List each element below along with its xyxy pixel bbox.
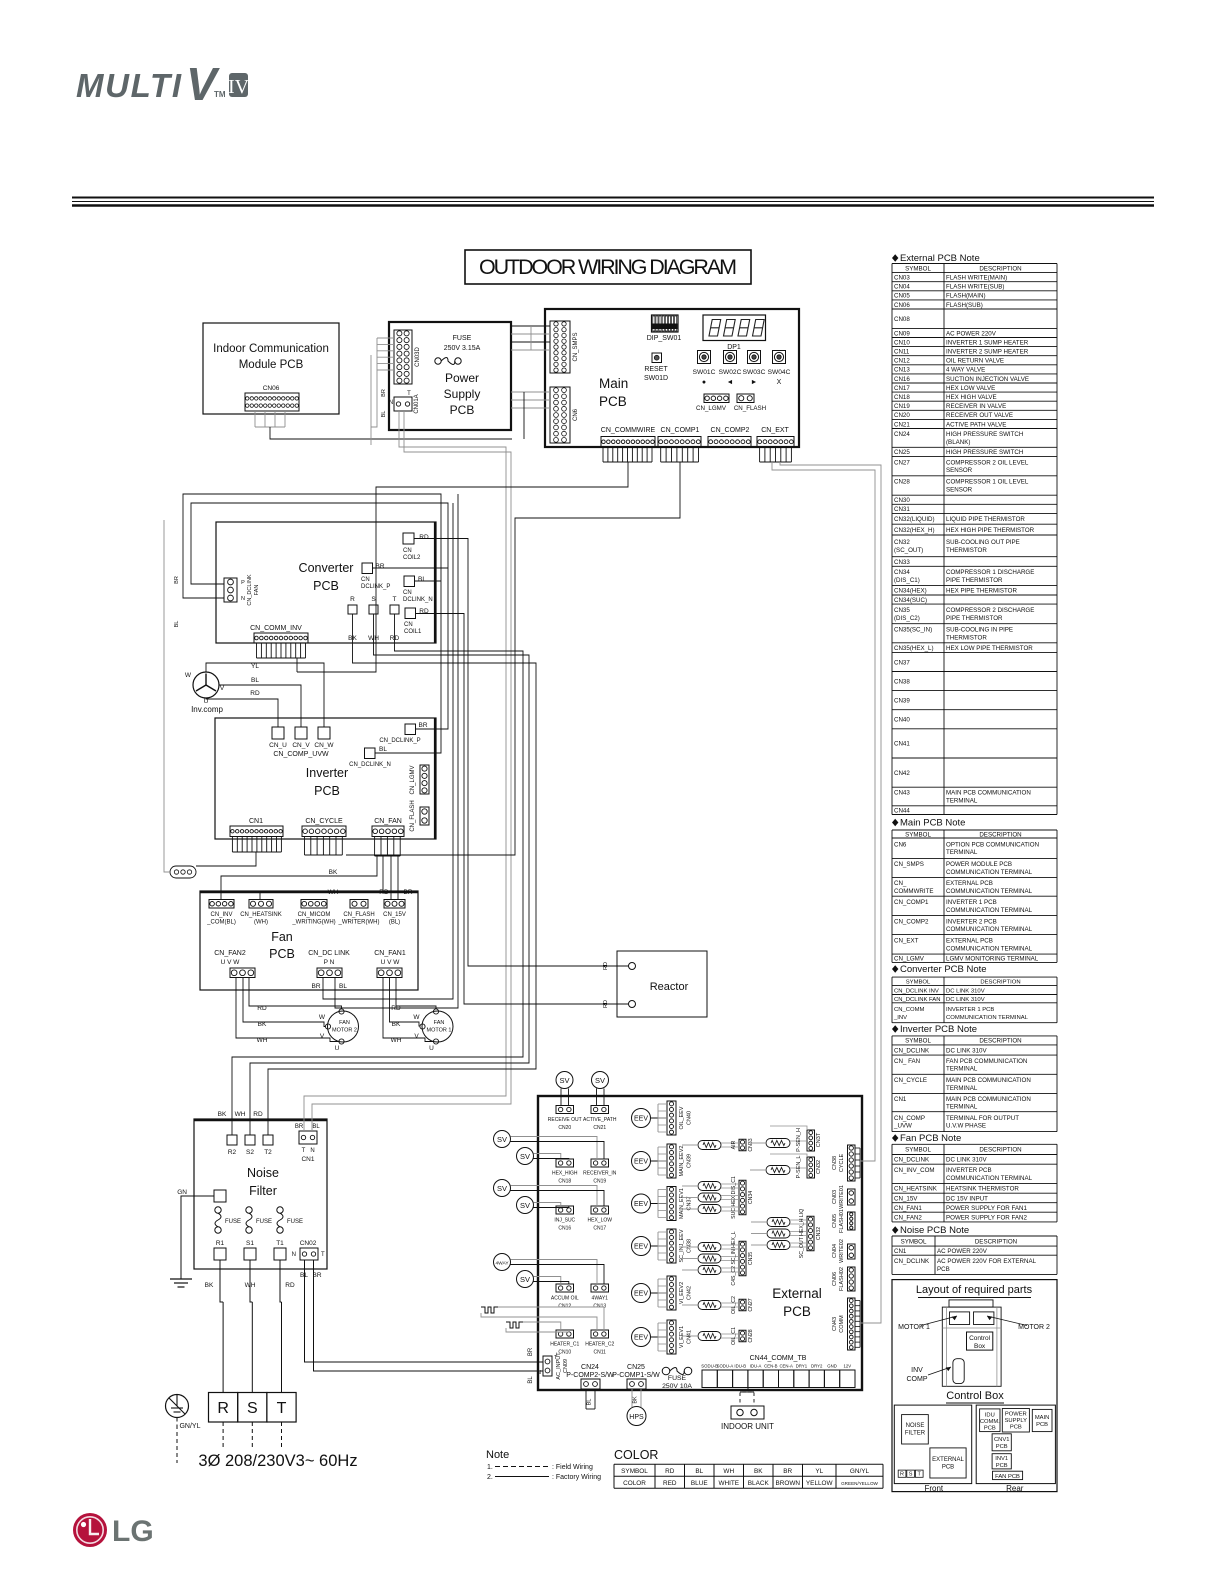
svg-text:T: T xyxy=(393,596,397,603)
svg-text:Rear: Rear xyxy=(1006,1484,1024,1493)
svg-text:CN_FAN: CN_FAN xyxy=(374,818,402,825)
svg-text:CEN-A: CEN-A xyxy=(779,1364,793,1369)
svg-text:SYMBOL: SYMBOL xyxy=(905,1147,931,1154)
svg-text:CN_CYCLE: CN_CYCLE xyxy=(894,1077,927,1084)
connector CN18 xyxy=(556,1159,574,1167)
svg-text:CN_EXT: CN_EXT xyxy=(894,938,919,945)
svg-text:FLASH WRITE(MAIN): FLASH WRITE(MAIN) xyxy=(946,274,1007,281)
svg-text:(DIS_C2): (DIS_C2) xyxy=(894,615,920,622)
svg-text:R: R xyxy=(350,596,355,603)
svg-text:CN37: CN37 xyxy=(894,659,910,666)
svg-text:FUSE: FUSE xyxy=(668,1375,687,1382)
svg-text:CN_INV_COM: CN_INV_COM xyxy=(894,1167,935,1174)
ground wire xyxy=(181,1196,214,1279)
svg-text:P: P xyxy=(241,580,245,586)
connectors CN_U CN_V CN_W xyxy=(272,727,284,739)
svg-text:X: X xyxy=(777,379,782,386)
connector CN03 WRITE01 xyxy=(848,1189,856,1205)
svg-text:SV: SV xyxy=(520,1152,530,1161)
svg-text:COMP: COMP xyxy=(907,1376,928,1383)
svg-text:V: V xyxy=(414,1033,419,1040)
svg-text:CN05: CN05 xyxy=(832,1214,838,1228)
svg-text:COIL2: COIL2 xyxy=(403,555,421,561)
connector CN38 CYCLE xyxy=(848,1145,856,1181)
svg-text:BR: BR xyxy=(375,563,384,570)
svg-text:CN24: CN24 xyxy=(894,431,910,438)
fuses xyxy=(215,1207,221,1213)
svg-text:RD: RD xyxy=(253,1111,263,1118)
svg-text:SV: SV xyxy=(520,1201,530,1210)
terminals R2 S2 T2 xyxy=(227,1135,237,1145)
svg-text:(WH): (WH) xyxy=(254,920,268,926)
svg-text:Supply: Supply xyxy=(444,387,481,401)
wire S xyxy=(251,1302,253,1393)
svg-text:COMMUNICATION TERMINAL: COMMUNICATION TERMINAL xyxy=(946,945,1033,952)
svg-text:INJ_SUC: INJ_SUC xyxy=(554,1218,575,1224)
thermistor connector CN27 xyxy=(739,1299,746,1311)
svg-text:BL: BL xyxy=(174,621,180,628)
svg-text:T: T xyxy=(302,1148,306,1154)
Rear box xyxy=(976,1405,1055,1484)
svg-text:CN_COMP: CN_COMP xyxy=(894,1115,925,1122)
svg-text:COMMUNICATION TERMINAL: COMMUNICATION TERMINAL xyxy=(946,926,1033,933)
svg-text:Noise PCB Note: Noise PCB Note xyxy=(900,1225,969,1236)
svg-text:INVERTER 1 PCB: INVERTER 1 PCB xyxy=(946,899,997,906)
svg-text:CN01A: CN01A xyxy=(414,394,420,413)
svg-text:Main PCB Note: Main PCB Note xyxy=(900,818,965,829)
svg-text:SUCTION INJECTION VALVE: SUCTION INJECTION VALVE xyxy=(946,376,1029,383)
svg-text:TERMINAL: TERMINAL xyxy=(946,1066,978,1073)
MULTI V IV logo xyxy=(76,58,250,110)
svg-text:CN03: CN03 xyxy=(832,1190,838,1204)
svg-text:SV: SV xyxy=(520,1275,530,1284)
svg-text:FAN: FAN xyxy=(254,585,260,596)
svg-text:CN24: CN24 xyxy=(581,1364,599,1371)
svg-text:CN_DC LINK: CN_DC LINK xyxy=(308,950,350,957)
svg-text:C4S_C2 SC_IN HEX_L: C4S_C2 SC_IN HEX_L xyxy=(731,1231,737,1285)
wire BK to HPS xyxy=(631,1389,633,1407)
svg-text:N: N xyxy=(310,1148,314,1154)
wire CN1 to inline connector xyxy=(196,852,256,866)
svg-text:V: V xyxy=(320,1033,325,1040)
svg-text:CN_DCLINK_P: CN_DCLINK_P xyxy=(379,738,420,744)
svg-text:CN35(HEX_L): CN35(HEX_L) xyxy=(894,645,934,652)
svg-text:PCB: PCB xyxy=(984,1426,996,1432)
svg-text:ACTIVE PATH VALVE: ACTIVE PATH VALVE xyxy=(946,421,1006,428)
connector CN_LGMV (inverter) xyxy=(420,765,429,794)
connector CN_LGMV xyxy=(704,394,729,403)
svg-text:LIQUID PIPE THERMISTOR: LIQUID PIPE THERMISTOR xyxy=(946,516,1025,523)
svg-text:SYMBOL: SYMBOL xyxy=(906,980,931,986)
svg-text:CN42: CN42 xyxy=(687,1286,693,1300)
fuse F1 xyxy=(435,358,441,364)
svg-text:MULTI: MULTI xyxy=(76,67,182,104)
wire BL to CN24 xyxy=(585,1389,587,1409)
svg-text:RD: RD xyxy=(250,690,260,697)
svg-text:BR: BR xyxy=(528,1347,534,1356)
svg-text:S: S xyxy=(909,1472,913,1478)
svg-text:IV: IV xyxy=(228,76,250,98)
button RESET SW01D xyxy=(652,353,662,363)
connector CN COIL2 xyxy=(403,533,414,544)
svg-text:SV: SV xyxy=(497,1184,507,1193)
svg-text:T: T xyxy=(407,391,411,397)
svg-text:P-SEN_H: P-SEN_H xyxy=(796,1128,802,1152)
svg-text:DC LINK 310V: DC LINK 310V xyxy=(946,1047,987,1054)
svg-text:DC LINK 310V: DC LINK 310V xyxy=(946,988,985,994)
svg-text:: Field Wiring: : Field Wiring xyxy=(552,1464,593,1471)
svg-text:Inv.comp: Inv.comp xyxy=(191,705,223,714)
svg-text:COMPRESSOR 2 DISCHARGE: COMPRESSOR 2 DISCHARGE xyxy=(946,607,1034,614)
svg-text:CN_MICOM: CN_MICOM xyxy=(298,912,331,918)
svg-text:CN_HEATSINK: CN_HEATSINK xyxy=(240,912,282,918)
svg-text:SUPPLY: SUPPLY xyxy=(1005,1418,1028,1424)
connector CN_INV_COM(BL) xyxy=(209,900,234,909)
svg-text:CN13: CN13 xyxy=(894,367,910,374)
pressure switch HPS xyxy=(627,1407,646,1426)
svg-text:CN37: CN37 xyxy=(687,1196,693,1210)
svg-text:CN06: CN06 xyxy=(263,385,280,392)
Main PCB box xyxy=(545,309,799,447)
svg-text:MAIN: MAIN xyxy=(1035,1415,1050,1421)
solenoid valve SV xyxy=(517,1271,534,1288)
svg-text:BROWN: BROWN xyxy=(776,1480,801,1487)
svg-text:RECEIVER OUT VALVE: RECEIVER OUT VALVE xyxy=(946,412,1013,419)
INDOOR UNIT connector xyxy=(731,1406,764,1419)
connector CN6 xyxy=(550,387,570,443)
wire T RD xyxy=(268,614,536,1135)
svg-text:CN11: CN11 xyxy=(894,348,910,355)
svg-text:WRITE02: WRITE02 xyxy=(839,1239,845,1263)
svg-text:CN43: CN43 xyxy=(894,790,910,797)
svg-text:FUSE: FUSE xyxy=(256,1219,272,1225)
svg-text:CN_FAN2: CN_FAN2 xyxy=(894,1214,922,1221)
svg-text:IDU-A: IDU-A xyxy=(750,1364,762,1369)
svg-text:CN09: CN09 xyxy=(563,1359,569,1373)
svg-text:CN04: CN04 xyxy=(894,284,910,291)
svg-text:CN_DCLINK_N: CN_DCLINK_N xyxy=(349,762,391,768)
svg-text:RECEIVE OUT: RECEIVE OUT xyxy=(548,1117,582,1123)
svg-text:EXTERNAL PCB: EXTERNAL PCB xyxy=(946,938,993,945)
svg-text:BK: BK xyxy=(329,869,338,876)
svg-text:CN35: CN35 xyxy=(748,1252,754,1265)
motor FAN MOTOR 2 xyxy=(328,1011,359,1042)
connector CN06 FLASH02 xyxy=(848,1267,856,1291)
svg-text:CN_DCLINK: CN_DCLINK xyxy=(247,574,253,606)
svg-text:COMM.: COMM. xyxy=(980,1419,1000,1425)
thermistor connector CN34 xyxy=(739,1180,746,1215)
svg-text:TERMINAL: TERMINAL xyxy=(946,1104,978,1111)
svg-text:GN/YL: GN/YL xyxy=(179,1423,200,1430)
button SW01C xyxy=(698,351,711,364)
svg-text:P-COMP2-S/W: P-COMP2-S/W xyxy=(566,1372,614,1379)
svg-text:CN_CYCLE: CN_CYCLE xyxy=(305,818,343,825)
svg-text:BL: BL xyxy=(339,983,347,990)
svg-text:BL: BL xyxy=(312,1124,320,1130)
svg-text:INDOOR UNIT: INDOOR UNIT xyxy=(721,1422,774,1431)
svg-text:COIL1: COIL1 xyxy=(404,629,422,635)
svg-text:CN34: CN34 xyxy=(894,569,910,576)
svg-text:CN38: CN38 xyxy=(832,1156,838,1170)
inline connector xyxy=(170,866,196,878)
svg-text:BR: BR xyxy=(418,722,427,729)
motor 2 rect xyxy=(974,1312,994,1325)
wire comp V BL xyxy=(219,685,301,727)
External PCB Note table xyxy=(892,254,898,262)
svg-text:LG: LG xyxy=(112,1515,154,1548)
connector CN10 xyxy=(556,1330,574,1338)
svg-text:CN_EXT: CN_EXT xyxy=(761,427,789,434)
svg-text:CN_ FAN: CN_ FAN xyxy=(894,1058,920,1065)
svg-text:YL: YL xyxy=(251,663,259,670)
svg-text:CN_INV: CN_INV xyxy=(210,912,232,918)
svg-text:_WRITING(WH): _WRITING(WH) xyxy=(291,920,335,926)
svg-text:FAN: FAN xyxy=(339,1020,350,1026)
svg-text:CN32: CN32 xyxy=(816,1227,822,1240)
svg-text:Main: Main xyxy=(599,376,628,391)
svg-text:CN19: CN19 xyxy=(894,403,910,410)
svg-text:Inverter: Inverter xyxy=(306,766,348,780)
svg-text:W: W xyxy=(185,672,192,679)
svg-text:P-COMP1-S/W: P-COMP1-S/W xyxy=(612,1372,660,1379)
svg-text:MOTOR 2: MOTOR 2 xyxy=(1018,1324,1050,1331)
svg-text:RECEIVER IN VALVE: RECEIVER IN VALVE xyxy=(946,403,1006,410)
wire CN03D stubs xyxy=(377,337,394,339)
connector CN_DCLINK_N xyxy=(365,748,376,759)
svg-text:CN_U: CN_U xyxy=(269,742,287,749)
svg-text:POWER SUPPLY FOR FAN2: POWER SUPPLY FOR FAN2 xyxy=(946,1214,1027,1221)
LG logo xyxy=(73,1513,107,1547)
svg-text:VI_EEV2: VI_EEV2 xyxy=(679,1282,685,1304)
svg-text:(BLANK): (BLANK) xyxy=(946,439,970,446)
svg-text:DRY1: DRY1 xyxy=(796,1364,808,1369)
svg-text:2.: 2. xyxy=(487,1474,493,1481)
svg-text:CN_LGMV: CN_LGMV xyxy=(696,405,727,412)
svg-text:CN35: CN35 xyxy=(894,607,910,614)
svg-text:DESCRIPTION: DESCRIPTION xyxy=(979,1038,1021,1045)
Fan PCB box xyxy=(200,891,418,990)
svg-text:SYMBOL: SYMBOL xyxy=(901,1238,927,1245)
svg-text:CN1: CN1 xyxy=(249,818,263,825)
svg-text:SW04C: SW04C xyxy=(768,369,791,376)
svg-text:_COM(BL): _COM(BL) xyxy=(206,920,236,926)
svg-text:CN25: CN25 xyxy=(627,1364,645,1371)
Main PCB Note table xyxy=(892,819,898,827)
svg-text:Indoor Communication: Indoor Communication xyxy=(213,343,329,355)
connector CN03D xyxy=(394,330,412,384)
svg-text:N: N xyxy=(241,596,245,602)
svg-text:Note: Note xyxy=(486,1449,509,1461)
solenoid valve SV xyxy=(494,1131,511,1148)
svg-text:TERMINAL: TERMINAL xyxy=(946,798,978,805)
svg-text:CN12: CN12 xyxy=(894,358,910,365)
connector CN1 (noise) xyxy=(299,1131,317,1144)
svg-text:BR: BR xyxy=(295,1124,304,1130)
unit outline xyxy=(949,1300,993,1307)
svg-text:CN33: CN33 xyxy=(894,559,910,566)
svg-text:TERMINAL: TERMINAL xyxy=(946,1085,978,1092)
Noise PCB Note table xyxy=(892,1226,898,1234)
svg-text:BL: BL xyxy=(695,1468,703,1475)
svg-text:GND: GND xyxy=(827,1364,837,1369)
svg-text:CN18: CN18 xyxy=(894,394,910,401)
svg-text:Converter PCB Note: Converter PCB Note xyxy=(900,964,987,975)
svg-text:Fan: Fan xyxy=(271,930,293,944)
svg-text:BK: BK xyxy=(633,1396,639,1404)
svg-text:PCB: PCB xyxy=(450,403,475,417)
svg-text:RECEIVER_IN: RECEIVER_IN xyxy=(583,1171,617,1177)
svg-text:CN03D: CN03D xyxy=(415,347,421,367)
svg-text:CN40: CN40 xyxy=(894,717,910,724)
svg-text:4 WAY VALVE: 4 WAY VALVE xyxy=(946,367,985,374)
svg-text:HEX HIGH PIPE THERMISTOR: HEX HIGH PIPE THERMISTOR xyxy=(946,527,1035,534)
svg-text:S: S xyxy=(247,1400,258,1417)
connector CN_FLASH xyxy=(737,394,754,403)
EEV CN37 xyxy=(632,1194,651,1213)
svg-text:PCB: PCB xyxy=(942,1465,954,1471)
terminal blocks R S T xyxy=(209,1393,238,1423)
svg-text:COMMUNICATION TERMINAL: COMMUNICATION TERMINAL xyxy=(946,869,1033,876)
svg-text:CN_FLASH: CN_FLASH xyxy=(734,405,766,412)
svg-text:AC_INPUT: AC_INPUT xyxy=(556,1352,562,1380)
svg-text:DESCRIPTION: DESCRIPTION xyxy=(975,1238,1017,1245)
svg-text:CN_: CN_ xyxy=(894,880,907,887)
svg-text:CN21: CN21 xyxy=(894,421,910,428)
svg-text:BL: BL xyxy=(381,411,387,418)
compressor Inv.comp xyxy=(193,672,219,698)
svg-text:1.: 1. xyxy=(487,1464,493,1471)
svg-text:: Factory Wiring: : Factory Wiring xyxy=(552,1474,601,1481)
svg-text:PCB: PCB xyxy=(269,947,295,961)
svg-text:EEV: EEV xyxy=(634,1159,648,1166)
EEV CN40 xyxy=(632,1109,651,1128)
svg-text:FUSE: FUSE xyxy=(453,335,472,342)
svg-text:DRY2: DRY2 xyxy=(811,1364,823,1369)
svg-text:NOISE: NOISE xyxy=(906,1423,925,1429)
svg-text:MOTOR 2: MOTOR 2 xyxy=(332,1028,357,1034)
svg-text:FAN PCB: FAN PCB xyxy=(995,1474,1020,1480)
svg-text:T1: T1 xyxy=(276,1240,284,1247)
protective earth symbol xyxy=(166,1395,189,1418)
wire DCLINK_P BR xyxy=(373,567,449,569)
terminals R S T xyxy=(348,605,357,614)
svg-text:INVERTER 2 PCB: INVERTER 2 PCB xyxy=(946,918,997,925)
svg-text:YL: YL xyxy=(815,1468,823,1475)
svg-text:EXTERNAL: EXTERNAL xyxy=(932,1457,964,1463)
svg-text:●: ● xyxy=(702,379,706,386)
svg-text:SYMBOL: SYMBOL xyxy=(905,265,931,272)
solenoid valve SV xyxy=(517,1148,534,1165)
Inverter PCB Note table xyxy=(892,1025,898,1033)
connector CN DCLINK_N xyxy=(404,576,415,587)
svg-text:EEV: EEV xyxy=(634,1244,648,1251)
svg-text:OIL_C2: OIL_C2 xyxy=(731,1296,737,1314)
svg-text:BK: BK xyxy=(754,1468,763,1475)
svg-text:T: T xyxy=(321,1252,325,1258)
connector CN_SMPS xyxy=(550,321,570,373)
svg-text:Filter: Filter xyxy=(249,1184,277,1198)
svg-text:COMMUNICATION TERMINAL: COMMUNICATION TERMINAL xyxy=(946,1175,1033,1182)
wire converter loop P xyxy=(191,503,448,729)
svg-text:250V 3.15A: 250V 3.15A xyxy=(444,345,481,352)
svg-text:CN_COMMWIRE: CN_COMMWIRE xyxy=(601,427,656,434)
svg-text:VI_EEV1: VI_EEV1 xyxy=(679,1326,685,1348)
svg-text:CN20: CN20 xyxy=(558,1125,571,1131)
svg-text:RED: RED xyxy=(663,1480,677,1487)
svg-text:4WAY1: 4WAY1 xyxy=(592,1296,609,1302)
svg-text:POWER MODULE PCB: POWER MODULE PCB xyxy=(946,861,1012,868)
svg-text:CNV1: CNV1 xyxy=(994,1437,1009,1443)
svg-text:BL: BL xyxy=(418,576,426,583)
connector CN17 xyxy=(591,1206,609,1214)
svg-text:CN_FAN2: CN_FAN2 xyxy=(214,950,246,957)
svg-text:Front: Front xyxy=(924,1484,943,1493)
svg-text:CN04: CN04 xyxy=(832,1244,838,1258)
Front box xyxy=(894,1405,971,1484)
comb CN_CYCLE xyxy=(304,837,306,856)
connector CN_MICOM_WRITING(WH) xyxy=(301,900,327,909)
svg-text:POWER SUPPLY FOR FAN1: POWER SUPPLY FOR FAN1 xyxy=(946,1205,1027,1212)
svg-text:CN19: CN19 xyxy=(593,1179,606,1185)
svg-text:COLOR: COLOR xyxy=(614,1448,658,1462)
svg-text:CN_15V: CN_15V xyxy=(383,912,406,918)
valve 4WAY xyxy=(494,1254,511,1271)
connector CN11 xyxy=(591,1330,609,1338)
svg-text:CN08: CN08 xyxy=(894,316,910,323)
svg-text:(DIS_C1): (DIS_C1) xyxy=(894,577,920,584)
svg-text:AC POWER 220V FOR EXTERNAL: AC POWER 220V FOR EXTERNAL xyxy=(937,1258,1037,1265)
svg-text:CN44_COMM_TB: CN44_COMM_TB xyxy=(750,1355,807,1362)
wire COIL2 RD to reactor xyxy=(414,539,629,967)
wire CN_EXT to CYCLE CN38 xyxy=(772,462,875,1161)
svg-text:U V W: U V W xyxy=(221,959,241,966)
connector CN DCLINK_P xyxy=(362,563,373,574)
svg-text:W: W xyxy=(319,1014,326,1021)
wire T xyxy=(281,1302,283,1393)
svg-text:4WAY: 4WAY xyxy=(495,1261,509,1267)
svg-text:BLACK: BLACK xyxy=(748,1480,770,1487)
svg-text:HIGH PRESSURE SWITCH: HIGH PRESSURE SWITCH xyxy=(946,449,1023,456)
svg-text:CN_W: CN_W xyxy=(314,742,334,749)
wire CN_COMP1 to CN_CYCLE xyxy=(346,462,680,855)
wire comp U RD xyxy=(206,698,278,727)
connector CN05 FLASH01 xyxy=(848,1212,856,1230)
svg-text:CN32(LIQUID): CN32(LIQUID) xyxy=(894,516,935,523)
svg-text:P N: P N xyxy=(324,959,335,966)
svg-text:PCB: PCB xyxy=(314,784,340,798)
svg-text:CN27: CN27 xyxy=(748,1298,754,1311)
svg-text:CN32(HEX_H): CN32(HEX_H) xyxy=(894,527,935,534)
svg-text:HEATER_C1: HEATER_C1 xyxy=(550,1342,579,1348)
svg-text:N: N xyxy=(292,1252,296,1258)
svg-text:COMMUNICATION TERMINAL: COMMUNICATION TERMINAL xyxy=(946,888,1033,895)
svg-text:U: U xyxy=(335,1045,340,1052)
wires to indoor unit xyxy=(740,1388,748,1407)
connector CN_HEATSINK(WH) xyxy=(249,900,273,909)
svg-text:TERMINAL: TERMINAL xyxy=(946,849,978,856)
svg-text:EEV: EEV xyxy=(634,1291,648,1298)
pressure sensor P-SEN_H CN3T xyxy=(807,1130,815,1151)
svg-text:MAIN_EEV2: MAIN_EEV2 xyxy=(679,1146,685,1177)
svg-text:CN06: CN06 xyxy=(832,1272,838,1286)
svg-text:BL: BL xyxy=(251,677,259,684)
svg-text:CN09: CN09 xyxy=(894,330,910,337)
svg-text:MOTOR 1: MOTOR 1 xyxy=(427,1028,452,1034)
svg-text:PCB: PCB xyxy=(313,579,339,593)
svg-text:DC LINK 310V: DC LINK 310V xyxy=(946,997,985,1003)
Converter PCB Note table xyxy=(892,965,898,973)
pressure sensor P-SEN_L CN32 xyxy=(807,1157,815,1178)
